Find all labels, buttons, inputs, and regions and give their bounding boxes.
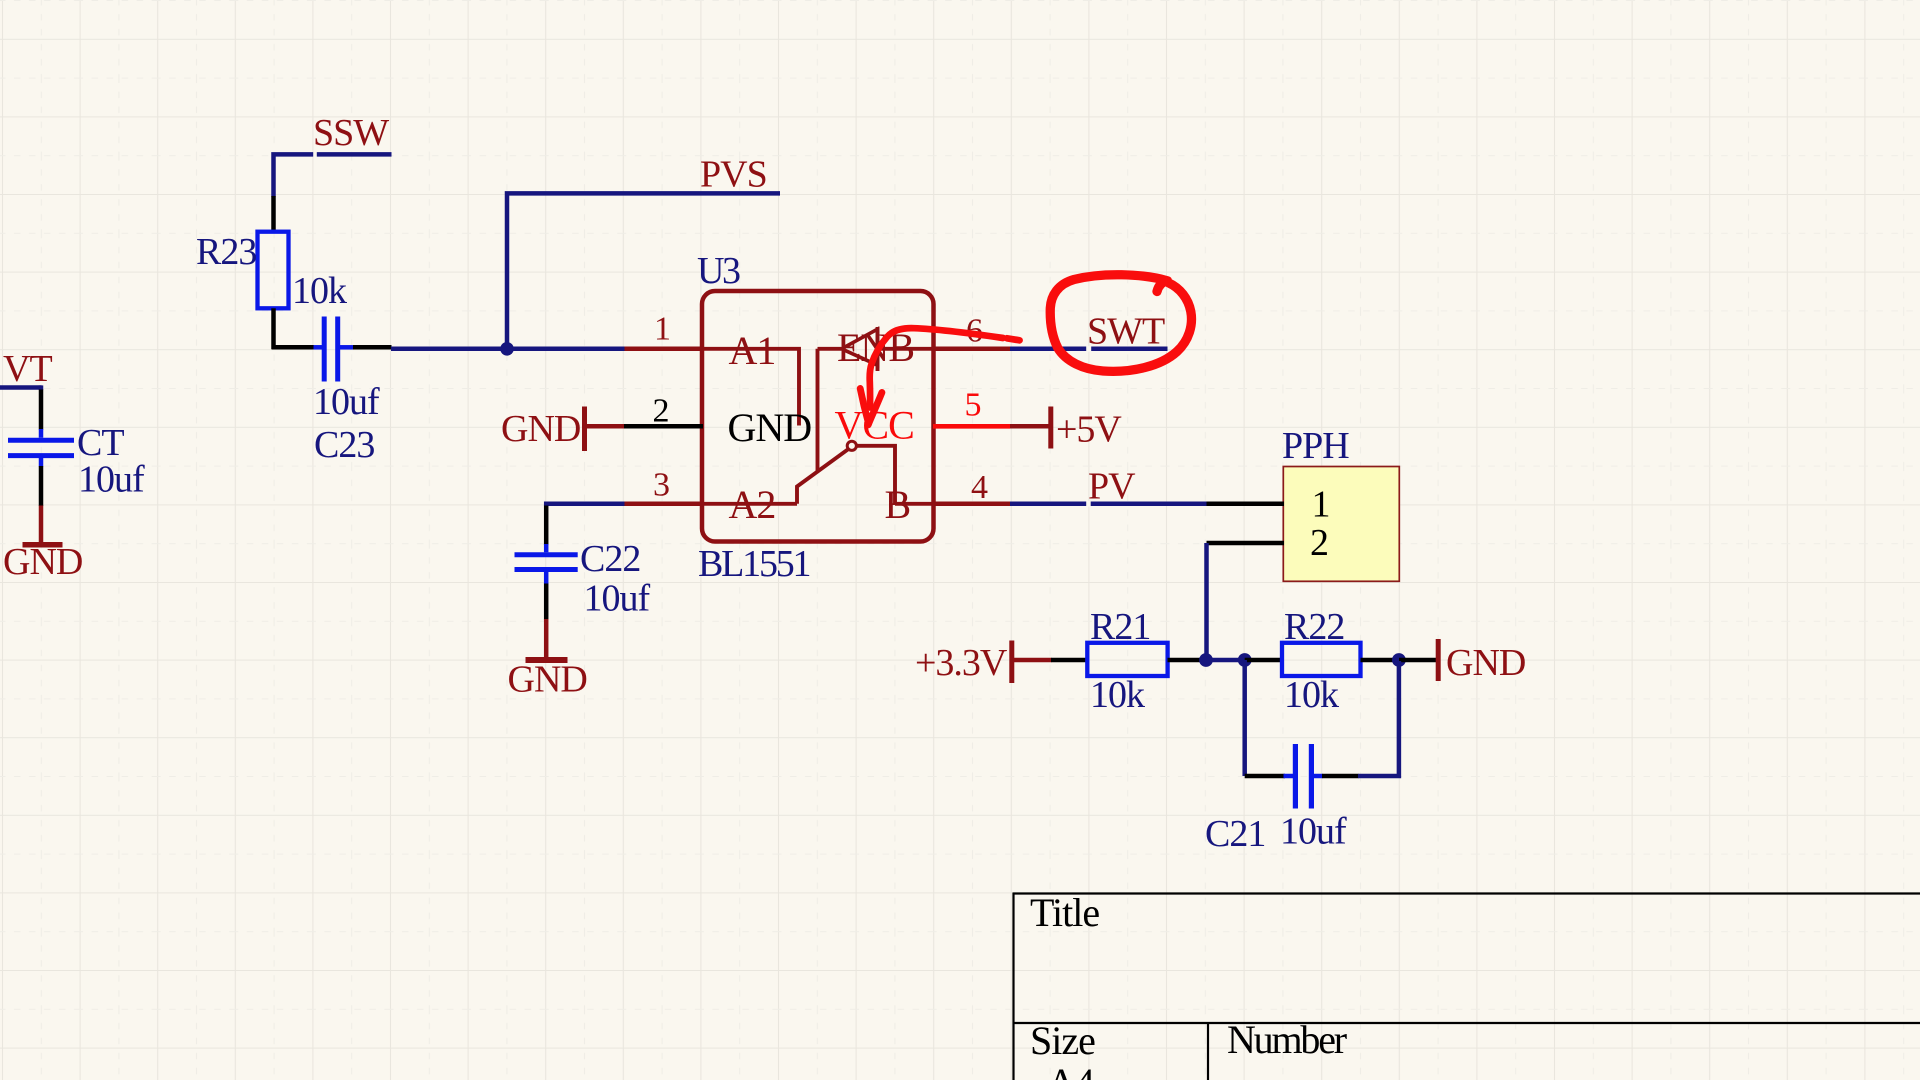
svg-text:Number: Number [1227,1017,1347,1062]
power GND (right) [1399,658,1437,663]
svg-text:10uf: 10uf [78,459,145,501]
analog switch U3 BL1551 body [702,291,934,542]
resistor R21 [1051,658,1089,663]
wire C21 right up [1358,661,1399,776]
wire A1 internal [703,349,799,426]
svg-text:PV: PV [1088,466,1136,508]
svg-text:VT: VT [3,348,52,390]
svg-text:B: B [885,482,911,527]
svg-text:A4: A4 [1047,1060,1095,1080]
svg-text:2: 2 [1310,522,1328,564]
node junction B [1238,653,1252,667]
svg-text:10k: 10k [1090,674,1145,716]
svg-text:GND: GND [3,541,82,583]
pin 5 [933,424,1010,429]
wire between junctions [1205,658,1245,663]
svg-text:C22: C22 [580,538,640,580]
svg-text:PVS: PVS [700,154,767,196]
svg-text:2: 2 [653,393,669,430]
node junction C [1392,653,1406,667]
wire SWT [1010,347,1168,352]
capacitor C23 [314,345,323,350]
svg-text:10uf: 10uf [1280,811,1347,853]
wire SSW [274,154,392,196]
pin 2 [623,424,703,429]
svg-text:PPH: PPH [1282,425,1349,467]
buffer triangle ENB [842,329,878,365]
svg-text:C21: C21 [1205,813,1265,855]
pin 1 PPH [1207,502,1285,507]
svg-text:SWT: SWT [1087,311,1165,353]
svg-text:+5V: +5V [1056,409,1122,451]
wire PPH pin2 down [1204,543,1209,661]
svg-text:A2: A2 [729,482,776,527]
wire ENB internal [818,349,842,471]
pin 2 PPH [1207,541,1285,546]
svg-text:R23: R23 [196,231,256,273]
svg-text:GND: GND [1446,642,1525,684]
switch arm [797,449,848,504]
resistor R23 [271,196,276,233]
svg-text:10uf: 10uf [313,381,380,423]
svg-text:1: 1 [1312,484,1330,526]
pin 3 [625,502,704,507]
svg-text:Size: Size [1030,1018,1095,1063]
svg-text:10uf: 10uf [584,578,651,620]
resistor R22 [1245,658,1283,663]
svg-text:R21: R21 [1090,606,1150,648]
capacitor C22 [544,506,549,546]
switch pivot [847,441,856,450]
node junction A [1199,653,1213,667]
svg-text:C23: C23 [314,424,374,466]
svg-text:SSW: SSW [313,112,389,154]
svg-text:+3.3V: +3.3V [915,642,1008,684]
svg-text:U3: U3 [697,250,740,292]
wire PV [1010,502,1207,507]
wire VT [0,385,42,390]
ground GND (CT) [39,506,44,544]
wire junction A down [1242,660,1247,776]
wire gap ticks [1086,346,1091,351]
wire B internal [857,446,934,504]
svg-text:GND: GND [728,405,812,450]
node junction PVS [500,342,514,356]
svg-text:5: 5 [965,387,981,424]
wire pin3 to C22 [546,504,624,506]
pin 4 [933,502,1010,507]
pin 1 [625,347,704,352]
wire R23 to C23 [272,345,315,350]
pin 6 [933,347,1010,352]
svg-text:R22: R22 [1284,606,1344,648]
ground GND (C22) [544,619,549,658]
title block [1012,893,1014,1080]
wire row1 [391,347,625,352]
svg-text:10k: 10k [292,270,347,312]
svg-text:10k: 10k [1284,674,1339,716]
svg-text:GND: GND [508,659,587,701]
power +5V [1010,424,1049,429]
wire PVS [507,193,780,348]
wire A2 internal [703,502,797,506]
svg-text:GND: GND [501,408,580,450]
svg-text:3: 3 [653,467,669,504]
svg-text:4: 4 [971,469,988,506]
svg-text:Title: Title [1030,890,1099,935]
capacitor CT [39,390,44,430]
marker ellipse around SWT [1050,275,1191,372]
capacitor C21 [1245,774,1285,779]
marker arrow [870,328,1003,407]
svg-text:1: 1 [654,311,670,348]
svg-text:BL1551: BL1551 [698,543,810,585]
svg-text:A1: A1 [729,328,776,373]
